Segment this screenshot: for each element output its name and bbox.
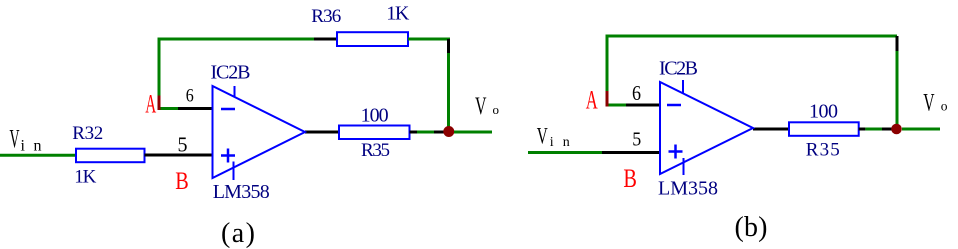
svg-text:R35: R35: [361, 140, 390, 161]
svg-text:B: B: [175, 168, 189, 195]
svg-text:1K: 1K: [386, 3, 410, 25]
svg-text:o: o: [493, 102, 500, 117]
svg-text:in: in: [21, 138, 42, 155]
svg-text:5: 5: [178, 133, 188, 157]
svg-text:6: 6: [186, 86, 194, 107]
svg-text:(b): (b): [735, 212, 768, 243]
svg-text:R36: R36: [311, 6, 341, 27]
svg-text:1K: 1K: [74, 167, 96, 188]
svg-text:100: 100: [361, 105, 389, 127]
svg-text:LM358: LM358: [658, 178, 718, 200]
svg-text:(a): (a): [221, 218, 255, 249]
svg-text:V: V: [923, 90, 934, 117]
svg-text:o: o: [941, 99, 948, 114]
svg-text:R32: R32: [72, 123, 103, 144]
svg-text:IC2B: IC2B: [659, 58, 698, 80]
svg-text:100: 100: [809, 101, 838, 123]
svg-text:V: V: [475, 93, 487, 120]
svg-text:V: V: [537, 124, 548, 149]
svg-text:R35: R35: [806, 140, 840, 161]
svg-text:A: A: [145, 90, 156, 119]
svg-text:6: 6: [632, 81, 641, 105]
svg-text:IC2B: IC2B: [211, 62, 251, 84]
svg-text:in: in: [550, 135, 570, 150]
svg-text:5: 5: [632, 129, 641, 151]
svg-text:LM358: LM358: [213, 181, 270, 203]
svg-text:B: B: [623, 164, 637, 193]
svg-text:A: A: [586, 86, 598, 115]
svg-text:V: V: [10, 125, 20, 154]
